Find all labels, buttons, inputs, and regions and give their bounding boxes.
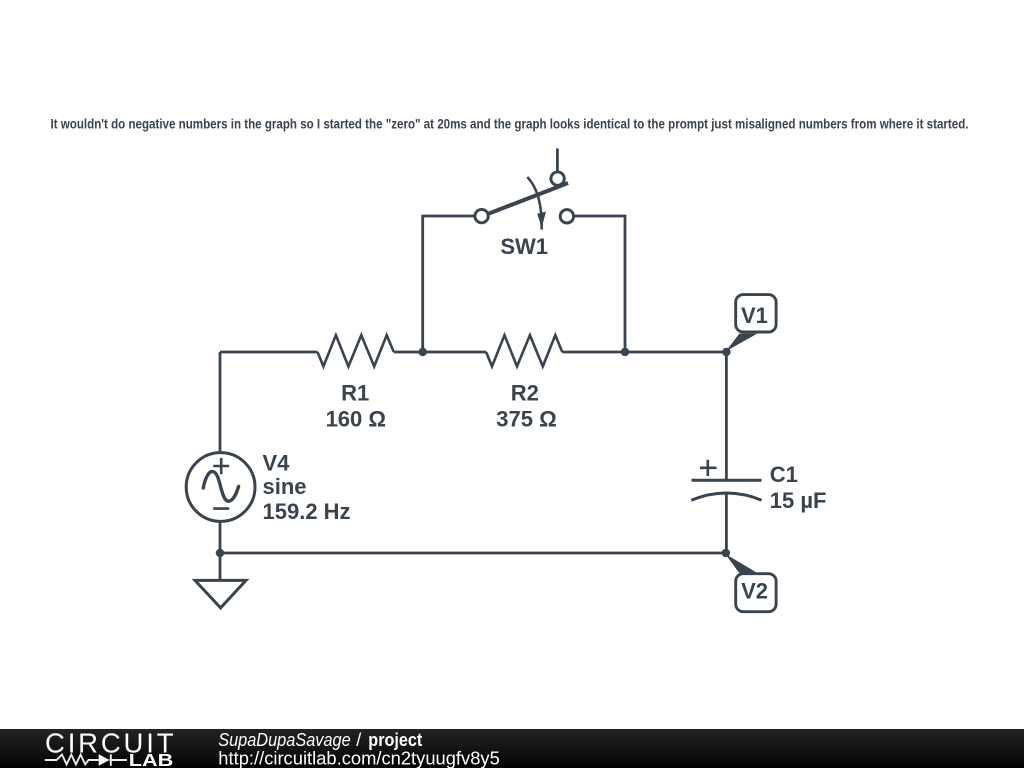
- node V1 flag box: [736, 295, 776, 332]
- resistor R2: [486, 335, 562, 366]
- wire capacitor to node V2: [725, 493, 728, 553]
- wire switch top stub: [556, 149, 559, 172]
- capacitor C1 bottom plate: [691, 493, 761, 500]
- source V4 minus: [213, 507, 229, 510]
- wire right vertical to capacitor: [725, 352, 728, 480]
- svg-text:SupaDupaSavage: SupaDupaSavage: [218, 730, 351, 750]
- svg-text:http://circuitlab.com/cn2tyuug: http://circuitlab.com/cn2tyuugfv8y5: [218, 749, 500, 769]
- junction node R1-R2: [418, 348, 427, 357]
- svg-text:R2: R2: [511, 380, 539, 405]
- wire switch right branch: [574, 216, 625, 352]
- node V2 flag pointer: [725, 554, 757, 573]
- svg-text:159.2 Hz: 159.2 Hz: [263, 499, 351, 524]
- node V2 flag box: [736, 574, 776, 612]
- svg-text:375 Ω: 375 Ω: [496, 406, 556, 431]
- switch SW1 motion arrow arc: [527, 177, 541, 230]
- switch SW1 right terminal: [560, 210, 573, 223]
- source V4 sine: [203, 471, 238, 501]
- logo diode bar and wire: [110, 754, 128, 765]
- wire bottom horizontal: [220, 552, 726, 555]
- wire left vertical to source: [219, 352, 222, 453]
- node V2 junction: [722, 549, 731, 558]
- source V4 circle: [186, 453, 255, 522]
- capacitor C1 plus: [700, 460, 717, 476]
- wire R2 to node V1: [562, 351, 726, 354]
- node V1 junction: [722, 348, 731, 357]
- wire between R1 and R2: [394, 351, 486, 354]
- node V1 flag pointer: [726, 334, 757, 352]
- wire switch left branch: [423, 216, 475, 352]
- wire top-left lead: [220, 351, 318, 354]
- svg-text:project: project: [368, 730, 422, 750]
- junction node source bottom: [216, 549, 225, 558]
- resistor R1: [318, 335, 394, 366]
- svg-text:C1: C1: [770, 462, 798, 487]
- svg-text:160 Ω: 160 Ω: [326, 406, 386, 431]
- wire source bottom to ground: [219, 521, 222, 580]
- svg-text:/: /: [356, 730, 361, 750]
- switch SW1 left terminal: [475, 209, 488, 222]
- junction node R2 right: [621, 348, 630, 357]
- svg-text:sine: sine: [263, 474, 307, 499]
- svg-text:SW1: SW1: [500, 234, 548, 259]
- svg-text:V4: V4: [263, 451, 291, 476]
- svg-text:It wouldn't do negative number: It wouldn't do negative numbers in the g…: [51, 116, 969, 132]
- svg-text:R1: R1: [341, 380, 369, 405]
- switch SW1 top terminal: [551, 172, 564, 185]
- svg-text:15 µF: 15 µF: [770, 488, 827, 513]
- svg-text:V2: V2: [741, 578, 768, 603]
- svg-text:LAB: LAB: [129, 750, 174, 768]
- switch SW1 lever: [488, 183, 568, 214]
- capacitor C1 top plate: [692, 479, 762, 482]
- ground: [195, 580, 246, 608]
- switch SW1 arrowhead: [537, 212, 546, 228]
- logo resistor squiggle: [45, 755, 99, 765]
- source V4 plus: [213, 458, 229, 474]
- logo diode: [99, 754, 110, 765]
- svg-text:V1: V1: [741, 303, 768, 328]
